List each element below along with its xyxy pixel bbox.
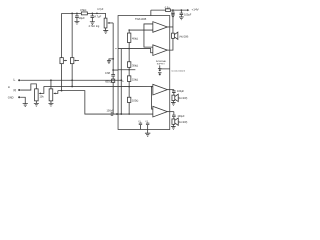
svg-text:100µF: 100µF bbox=[177, 90, 185, 93]
ground under P5 bbox=[48, 103, 53, 106]
svg-text:0.5Ω: 0.5Ω bbox=[165, 6, 170, 9]
node dot V4 pin stub bbox=[112, 69, 114, 71]
svg-text:in: in bbox=[8, 85, 11, 89]
IC U1 outline bbox=[118, 16, 170, 130]
resistor R100 bbox=[127, 97, 130, 102]
svg-text:+14V: +14V bbox=[192, 8, 199, 12]
wiper arrow P5 bbox=[54, 91, 58, 94]
capacitor C8 100uF bbox=[180, 10, 184, 17]
svg-text:(4Ω/2W): (4Ω/2W) bbox=[178, 121, 187, 124]
node dot pot4 drop bbox=[50, 79, 52, 81]
ground marks at C7 bbox=[171, 15, 175, 18]
node dot rail x=172.6 bbox=[172, 9, 174, 11]
node dot after cap bbox=[116, 113, 118, 115]
wire mid line y=86 to IC bbox=[44, 85, 153, 87]
resistor R40k bbox=[127, 33, 130, 42]
node dot rail2 end bbox=[71, 86, 73, 88]
rail end arrow bbox=[187, 9, 189, 11]
svg-text:(4Ω/2W): (4Ω/2W) bbox=[179, 36, 188, 39]
wire top bias line y=13 bbox=[62, 12, 106, 14]
ground under SP2 bbox=[172, 101, 174, 103]
wire op-amp1 inv input line bbox=[129, 29, 153, 31]
svg-text:C2: C2 bbox=[145, 121, 149, 123]
wire rail to IC top bbox=[150, 10, 152, 15]
capacitor C5 0.68 on V4 bbox=[111, 74, 115, 76]
resistor R15k bbox=[127, 76, 130, 82]
node dot rail2 on L line bbox=[71, 79, 73, 81]
resistor R 1ohm on rail bbox=[166, 9, 171, 12]
svg-text:4.7kΩ log: 4.7kΩ log bbox=[89, 25, 100, 28]
supply rail y=9.8 bbox=[151, 9, 189, 11]
wire speaker to op2 output bbox=[167, 38, 173, 50]
svg-text:4.7µF: 4.7µF bbox=[97, 8, 104, 11]
svg-text:100nF: 100nF bbox=[107, 110, 115, 113]
wire op3 output bbox=[167, 89, 174, 91]
ground under SP3 bbox=[172, 124, 174, 126]
svg-text:R: R bbox=[14, 88, 17, 92]
capacitor C9 100uF bbox=[172, 90, 176, 96]
node dot V4 on L line bbox=[112, 79, 114, 81]
op-amp U1b bbox=[153, 45, 168, 56]
svg-text:15kΩ: 15kΩ bbox=[132, 77, 138, 81]
wire stub into IC y=69.7 bbox=[113, 69, 118, 71]
resistor R650 on V4 bbox=[112, 79, 115, 82]
svg-text:SUPPLY: SUPPLY bbox=[157, 64, 166, 66]
capacitor C6 100nF in R line bbox=[111, 112, 113, 116]
svg-text:GND: GND bbox=[8, 96, 14, 100]
ground under C1 bbox=[74, 21, 79, 24]
wiper arrow P2 bbox=[75, 60, 79, 62]
wire GND stub bbox=[20, 97, 25, 103]
wiper arrow P3 bbox=[108, 22, 113, 24]
capacitor C1 10uF bbox=[76, 13, 78, 16]
wire op3/op4 C-link bbox=[152, 87, 153, 109]
ground tap on V4 bbox=[112, 58, 114, 60]
wire R line bbox=[20, 84, 36, 90]
svg-text:10µF: 10µF bbox=[79, 16, 86, 20]
svg-text:100Ω: 100Ω bbox=[132, 99, 138, 103]
wire R line B y=90.3 bbox=[58, 91, 111, 114]
internal reference symbol bbox=[159, 65, 161, 68]
potentiometer P1 on rail1 bbox=[60, 58, 63, 64]
svg-text:100µF: 100µF bbox=[184, 14, 192, 17]
speaker SP3 bbox=[172, 119, 175, 124]
svg-text:no ext.network: no ext.network bbox=[171, 70, 185, 73]
pin mark bbox=[115, 48, 116, 49]
IC bottom caps C1 C2 bbox=[139, 122, 142, 129]
speaker SP1 bridge bbox=[172, 33, 175, 38]
ground under C2 bbox=[90, 22, 95, 25]
wiper arrow P4 bbox=[39, 86, 44, 93]
ground under IC bbox=[147, 129, 149, 133]
wire drop to pot P3 bbox=[105, 13, 107, 18]
wire V4 from wiper down bbox=[112, 23, 114, 75]
svg-text:0.68: 0.68 bbox=[105, 71, 111, 75]
node junction rail2 top bbox=[71, 12, 73, 14]
speaker SP2 bbox=[172, 95, 175, 100]
wire drop from L line to P5 bbox=[50, 80, 52, 89]
node dot rail x=181 bbox=[180, 9, 182, 11]
ground at GND terminal bbox=[23, 104, 28, 107]
wire reference to pin bbox=[160, 68, 170, 70]
potentiometer P3 4.7k bbox=[104, 18, 107, 28]
resistor R30k bbox=[127, 62, 130, 68]
potentiometer P5 input R 10k bbox=[49, 89, 53, 101]
capacitor C7 on speaker line bbox=[171, 10, 174, 33]
svg-text:30kΩ: 30kΩ bbox=[132, 63, 138, 67]
svg-text:40kΩ: 40kΩ bbox=[132, 37, 138, 41]
wire op-amp1 noninv C-link bbox=[144, 24, 153, 47]
potentiometer P4 input L 10k bbox=[35, 89, 39, 101]
ground under P3 bbox=[103, 31, 108, 34]
svg-text:(4Ω/2W): (4Ω/2W) bbox=[178, 97, 187, 100]
wire left rail x=61.2 bbox=[61, 13, 63, 90]
capacitor C10 100uF bbox=[172, 112, 176, 119]
wire inner line y=69.4 bbox=[118, 69, 135, 71]
svg-text:4.7µF: 4.7µF bbox=[94, 15, 101, 19]
wire second rail x=71.8 bbox=[71, 13, 73, 86]
wire op4 output bbox=[167, 111, 174, 113]
wiper arrow P1 bbox=[64, 60, 67, 62]
svg-text:47kΩ: 47kΩ bbox=[80, 8, 86, 12]
wire L line y=79.9 bbox=[20, 79, 121, 81]
resistor ladder stub top bbox=[128, 30, 130, 33]
wire op1 output bbox=[167, 26, 173, 28]
op-amp U1c bbox=[153, 84, 168, 95]
wire inner vertical x=120.9 bbox=[120, 49, 122, 115]
capacitor C2 4.7uF bbox=[91, 13, 93, 16]
wire op2 inv jog bbox=[118, 49, 153, 53]
ground under C8 bbox=[179, 17, 184, 20]
node dot rail1 end bbox=[61, 90, 63, 92]
svg-text:L: L bbox=[14, 78, 16, 82]
op-amp U1a bbox=[153, 22, 168, 33]
ground under P4 bbox=[34, 103, 39, 106]
svg-text:C1: C1 bbox=[138, 121, 142, 123]
svg-text:TDA1045: TDA1045 bbox=[135, 17, 147, 21]
potentiometer P2 on rail2 bbox=[70, 58, 73, 64]
resistor R1 47k bbox=[81, 12, 87, 15]
op-amp U1d bbox=[153, 106, 168, 117]
svg-text:10k: 10k bbox=[40, 96, 45, 99]
